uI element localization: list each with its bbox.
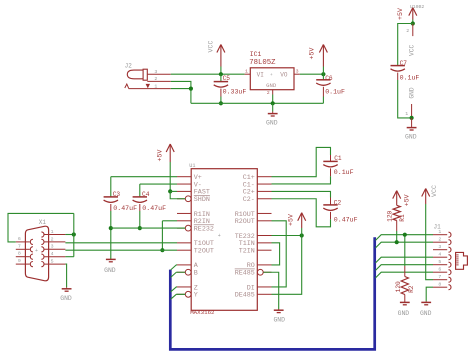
svg-text:C2: C2 — [334, 199, 342, 206]
svg-text:78L05Z: 78L05Z — [249, 59, 276, 67]
svg-text:+5V: +5V — [288, 214, 295, 226]
svg-text:C7: C7 — [400, 60, 408, 67]
svg-text:Y: Y — [194, 292, 198, 300]
svg-text:R2OUT: R2OUT — [235, 218, 255, 226]
svg-text:T2IN: T2IN — [239, 248, 255, 256]
svg-text:6: 6 — [438, 267, 441, 273]
svg-text:5: 5 — [51, 259, 54, 265]
svg-text:U1: U1 — [189, 163, 195, 169]
svg-text:X1: X1 — [39, 219, 47, 226]
svg-text:GND: GND — [408, 87, 415, 98]
svg-text:7: 7 — [438, 274, 441, 280]
svg-text:GND: GND — [266, 82, 277, 89]
svg-text:4: 4 — [51, 251, 54, 257]
svg-text:VCC: VCC — [408, 45, 415, 56]
svg-text:+5V: +5V — [157, 150, 164, 162]
svg-text:GND: GND — [104, 267, 116, 274]
svg-text:VCC: VCC — [208, 41, 215, 53]
svg-text:T2OUT: T2OUT — [194, 248, 214, 256]
svg-text:J1: J1 — [434, 223, 442, 230]
svg-text:1: 1 — [51, 229, 54, 235]
svg-text:C4: C4 — [142, 191, 150, 198]
svg-text:0.1uF: 0.1uF — [334, 169, 354, 176]
svg-text:1: 1 — [245, 68, 248, 74]
svg-text:120: 120 — [386, 210, 393, 221]
svg-text:7: 7 — [18, 243, 21, 249]
svg-text:2: 2 — [154, 76, 157, 82]
svg-text:+5V: +5V — [397, 8, 404, 20]
svg-text:0.33uF: 0.33uF — [223, 88, 247, 95]
svg-text:GND: GND — [398, 310, 410, 317]
svg-text:GND: GND — [405, 134, 417, 141]
svg-text:3: 3 — [296, 68, 299, 74]
svg-text:R1: R1 — [399, 214, 406, 222]
svg-text:C3: C3 — [113, 191, 121, 198]
svg-text:3: 3 — [438, 244, 441, 250]
svg-text:2: 2 — [51, 236, 54, 242]
svg-text:GND: GND — [60, 295, 72, 302]
svg-text:R2: R2 — [408, 285, 415, 293]
svg-text:MAX3162: MAX3162 — [190, 309, 215, 316]
svg-text:3: 3 — [154, 69, 157, 75]
svg-text:0.1uF: 0.1uF — [325, 88, 345, 95]
svg-text:+5V: +5V — [309, 48, 316, 60]
svg-text:0.47uF: 0.47uF — [334, 217, 358, 224]
svg-text:5: 5 — [438, 259, 441, 265]
svg-text:2: 2 — [406, 28, 409, 34]
svg-text:+5V: +5V — [403, 194, 410, 206]
svg-text:RE485: RE485 — [235, 270, 255, 278]
svg-text:120: 120 — [395, 281, 402, 292]
svg-text:1: 1 — [405, 111, 408, 117]
svg-text:VI: VI — [257, 71, 264, 78]
svg-text:IC1: IC1 — [250, 51, 262, 58]
svg-text:6: 6 — [18, 236, 21, 242]
svg-text:U10B2: U10B2 — [410, 4, 425, 10]
svg-text:0.47uF: 0.47uF — [142, 205, 166, 212]
svg-text:+: + — [218, 233, 221, 239]
svg-text:0.47uF: 0.47uF — [113, 205, 137, 212]
svg-text:VO: VO — [280, 71, 288, 78]
svg-text:VCC: VCC — [431, 185, 438, 197]
svg-text:1: 1 — [154, 83, 157, 89]
svg-text:DE485: DE485 — [235, 292, 255, 300]
svg-text:C1: C1 — [334, 155, 342, 162]
svg-text:8: 8 — [18, 251, 21, 257]
svg-text:0.1uF: 0.1uF — [400, 74, 420, 81]
svg-text:RE232: RE232 — [194, 225, 214, 233]
svg-text:3: 3 — [51, 244, 54, 250]
svg-text:9: 9 — [18, 258, 21, 264]
svg-text:GND: GND — [420, 310, 432, 317]
svg-text:8: 8 — [438, 282, 441, 288]
svg-text:+: + — [270, 73, 273, 78]
svg-text:C5: C5 — [223, 75, 231, 82]
svg-text:B: B — [194, 270, 198, 278]
svg-text:J2: J2 — [125, 62, 133, 69]
svg-text:4: 4 — [438, 252, 441, 258]
svg-text:SHDN: SHDN — [194, 196, 210, 204]
svg-text:+: + — [35, 248, 38, 254]
svg-text:C2-: C2- — [243, 196, 255, 204]
svg-text:2: 2 — [267, 90, 270, 96]
svg-text:GND: GND — [273, 317, 285, 324]
svg-text:GND: GND — [266, 119, 278, 126]
svg-text:2: 2 — [438, 237, 441, 243]
svg-text:C6: C6 — [325, 75, 333, 82]
